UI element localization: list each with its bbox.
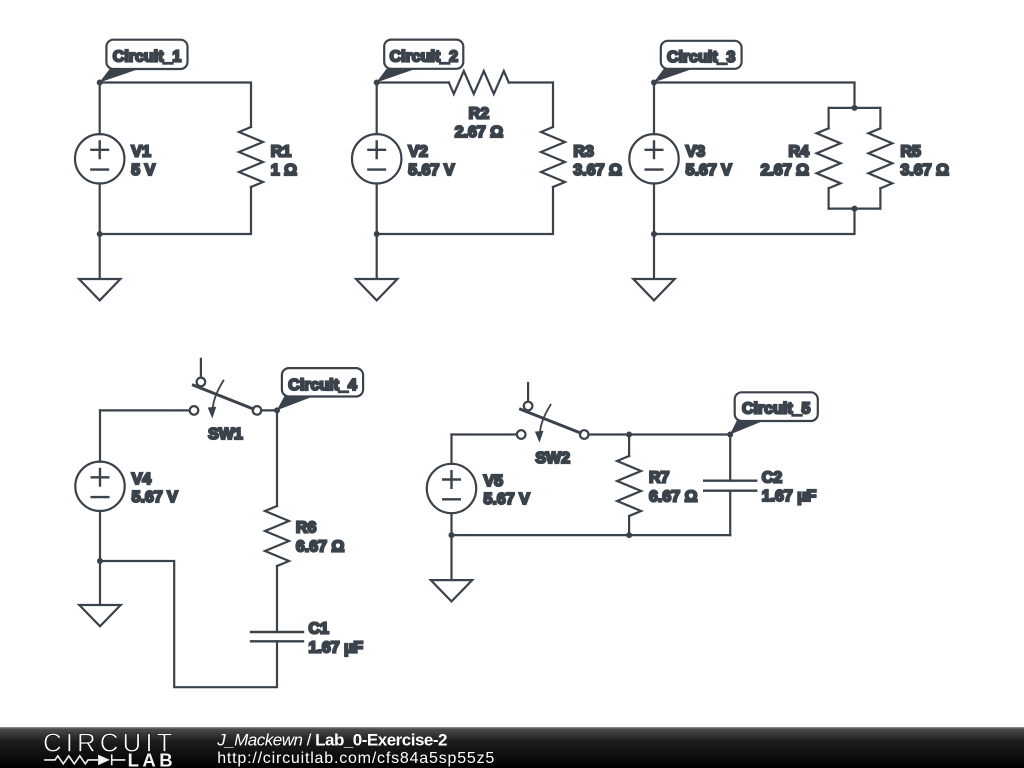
node junction dot bottom-left circuit 2 bbox=[374, 231, 380, 237]
resistor R1 bbox=[239, 127, 263, 187]
wire C2 bottom lead bbox=[729, 491, 731, 535]
node junction dot R7 bottom bbox=[626, 532, 632, 538]
node junction dot parallel bottom bbox=[852, 206, 858, 212]
wire R6 to C1 bbox=[276, 566, 278, 632]
node label Circuit_5 bbox=[730, 392, 818, 434]
svg-text:1 Ω: 1 Ω bbox=[271, 162, 297, 179]
node junction dot top-left circuit 1 bbox=[97, 80, 103, 86]
wire R5 top lead bbox=[879, 108, 881, 128]
svg-text:Circuit_4: Circuit_4 bbox=[288, 377, 357, 394]
node junction dot circuit 4 top bbox=[274, 407, 280, 413]
switch SW1 bbox=[190, 359, 262, 419]
svg-text:5 V: 5 V bbox=[131, 162, 155, 179]
wire top-right circuit 2 bbox=[509, 83, 553, 128]
svg-text:R7: R7 bbox=[649, 469, 670, 486]
wire top-left circuit 2 bbox=[377, 81, 449, 83]
wire switch pole to node circuit 4 bbox=[261, 409, 277, 411]
voltage source V1 bbox=[75, 83, 124, 235]
wire V5 to switch SW2 bbox=[452, 433, 516, 435]
capacitor C2 bbox=[704, 481, 756, 491]
wire R7 bottom lead bbox=[628, 516, 630, 535]
wire bottom circuit 5 bbox=[452, 534, 731, 536]
node label Circuit_2 bbox=[376, 40, 463, 83]
wire node down to R6 bbox=[276, 410, 278, 506]
node label Circuit_1 bbox=[99, 40, 187, 83]
node junction dot R7 top bbox=[626, 432, 632, 438]
svg-text:1.67 µF: 1.67 µF bbox=[762, 488, 817, 505]
svg-text:2.67 Ω: 2.67 Ω bbox=[455, 124, 504, 141]
svg-text:5.67 V: 5.67 V bbox=[408, 162, 455, 179]
svg-text:R1: R1 bbox=[271, 143, 292, 160]
svg-text:J_Mackewn / Lab_0-Exercise-2: J_Mackewn / Lab_0-Exercise-2 bbox=[216, 731, 447, 750]
capacitor C1 bbox=[251, 632, 303, 641]
svg-text:Circuit_5: Circuit_5 bbox=[742, 401, 811, 418]
svg-text:6.67 Ω: 6.67 Ω bbox=[296, 538, 345, 555]
ground circuit 4 bbox=[79, 561, 120, 626]
node junction dot bottom-left circuit 3 bbox=[651, 231, 657, 237]
ground circuit 3 bbox=[633, 234, 674, 300]
wire top circuit 1 bbox=[100, 83, 251, 128]
wire R4 top lead bbox=[827, 108, 829, 128]
node junction dot C2 top bbox=[727, 432, 733, 438]
svg-text:Circuit_1: Circuit_1 bbox=[113, 49, 182, 66]
wire switch pole to C2 node circuit 5 bbox=[589, 433, 731, 435]
resistor R3 bbox=[541, 127, 565, 187]
voltage source V2 bbox=[352, 83, 401, 235]
node junction dot V5 bottom bbox=[449, 532, 455, 538]
svg-text:C2: C2 bbox=[762, 469, 783, 486]
svg-text:Circuit_3: Circuit_3 bbox=[667, 49, 736, 66]
wire parallel top bar bbox=[829, 107, 881, 109]
svg-text:V3: V3 bbox=[686, 143, 706, 160]
node junction dot circuit 4 bottom-left bbox=[97, 558, 103, 564]
svg-text:1.67 µF: 1.67 µF bbox=[309, 639, 364, 656]
svg-text:R6: R6 bbox=[296, 520, 317, 537]
node junction dot top-left circuit 2 bbox=[374, 80, 380, 86]
CircuitLab logo resistor-diode line bbox=[44, 754, 125, 765]
wire V4 to switch SW1 bbox=[100, 409, 189, 411]
svg-text:V5: V5 bbox=[484, 473, 504, 490]
wire right-bottom circuit 1 bbox=[100, 187, 251, 234]
wire C1 bottom loop back to V4 bbox=[100, 561, 277, 687]
svg-text:R5: R5 bbox=[901, 143, 922, 160]
svg-text:SW1: SW1 bbox=[208, 426, 243, 443]
svg-text:V1: V1 bbox=[131, 143, 151, 160]
wire top circuit 3 bbox=[654, 83, 855, 108]
resistor R7 bbox=[617, 456, 641, 516]
svg-text:LAB: LAB bbox=[128, 749, 177, 768]
node junction dot parallel top bbox=[852, 105, 858, 111]
resistor R6 bbox=[265, 506, 289, 566]
svg-text:2.67 Ω: 2.67 Ω bbox=[761, 162, 810, 179]
wire C2 top lead bbox=[729, 435, 731, 481]
svg-text:Circuit_2: Circuit_2 bbox=[390, 49, 459, 66]
svg-text:R4: R4 bbox=[789, 143, 810, 160]
resistor R2 bbox=[449, 71, 509, 94]
voltage source V3 bbox=[629, 83, 678, 235]
wire R5 bottom lead bbox=[879, 188, 881, 208]
svg-text:R3: R3 bbox=[573, 143, 594, 160]
svg-text:V2: V2 bbox=[408, 143, 428, 160]
svg-text:6.67 Ω: 6.67 Ω bbox=[649, 488, 698, 505]
wire right-bottom circuit 2 bbox=[377, 187, 553, 234]
svg-text:R2: R2 bbox=[469, 106, 490, 123]
ground circuit 2 bbox=[356, 234, 397, 300]
svg-text:5.67 V: 5.67 V bbox=[686, 162, 733, 179]
ground circuit 1 bbox=[79, 234, 120, 300]
wire bottom circuit 3 bbox=[654, 209, 855, 234]
svg-text:5.67 V: 5.67 V bbox=[484, 491, 531, 508]
node junction dot top-left circuit 3 bbox=[651, 80, 657, 86]
node junction dot bottom-left circuit 1 bbox=[97, 231, 103, 237]
voltage source V5 bbox=[427, 435, 476, 536]
voltage source V4 bbox=[75, 410, 124, 561]
svg-text:5.67 V: 5.67 V bbox=[132, 489, 179, 506]
svg-text:http://circuitlab.com/cfs84a5s: http://circuitlab.com/cfs84a5sp55z5 bbox=[217, 750, 495, 767]
svg-text:SW2: SW2 bbox=[535, 450, 570, 467]
wire R4 bottom lead bbox=[827, 188, 829, 208]
wire parallel bottom bar bbox=[829, 208, 881, 210]
svg-text:C1: C1 bbox=[309, 621, 330, 638]
switch SW2 bbox=[517, 383, 589, 443]
wire R7 top lead bbox=[628, 435, 630, 457]
svg-text:V4: V4 bbox=[132, 471, 152, 488]
ground circuit 5 bbox=[431, 535, 472, 601]
node label Circuit_3 bbox=[654, 41, 742, 83]
resistor R4 bbox=[817, 128, 841, 188]
svg-text:3.67 Ω: 3.67 Ω bbox=[901, 162, 950, 179]
resistor R5 bbox=[868, 128, 892, 188]
svg-text:3.67 Ω: 3.67 Ω bbox=[573, 162, 622, 179]
node label Circuit_4 bbox=[277, 368, 363, 410]
